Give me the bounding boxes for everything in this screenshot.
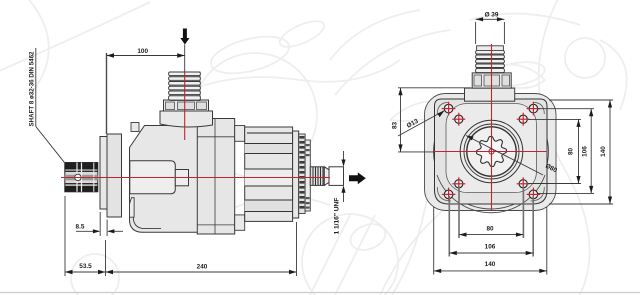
housing boss notch small xyxy=(175,170,188,186)
bolt hole O13 bottom-right xyxy=(527,188,541,202)
housing boss notch xyxy=(130,161,176,194)
top port hex xyxy=(472,73,511,88)
bolt hole O13 bottom-left xyxy=(442,188,456,202)
flange raised pad contour xyxy=(446,104,537,193)
hub circle Ø80 xyxy=(460,120,523,183)
valve block top lug xyxy=(235,126,245,142)
pump mounting flange plate xyxy=(100,137,107,210)
outlet tube xyxy=(329,167,344,186)
left view vertical red centerline xyxy=(184,72,186,140)
inlet flow arrow (down) xyxy=(180,29,189,45)
top port boss collar xyxy=(160,111,213,127)
outlet flow arrow (right) xyxy=(349,172,366,184)
svg-text:83: 83 xyxy=(392,121,399,129)
valve block xyxy=(197,119,234,235)
svg-text:53.5: 53.5 xyxy=(79,263,92,270)
svg-text:106: 106 xyxy=(582,146,589,157)
housing top-left lug xyxy=(131,123,139,132)
top port boss xyxy=(465,88,515,101)
svg-text:140: 140 xyxy=(485,261,496,268)
pump body silhouette behind flange xyxy=(425,94,557,211)
dimension 140 (vertical) xyxy=(549,100,613,204)
shaft spec label xyxy=(29,48,65,162)
outlet fitting threads xyxy=(310,167,324,186)
dimension 106 (vertical) xyxy=(538,109,594,194)
dimension 106 (horizontal) xyxy=(449,196,533,257)
bottom separator line xyxy=(0,292,640,294)
extension line below flow arrow xyxy=(184,45,186,73)
pump front housing body xyxy=(130,126,198,233)
body circle arc behind flange xyxy=(434,94,549,209)
dimension 80 (horizontal) xyxy=(459,186,523,238)
bolt hole inner bottom-right xyxy=(517,177,530,190)
svg-text:8.5: 8.5 xyxy=(76,224,85,231)
svg-text:140: 140 xyxy=(600,146,607,157)
bore center xyxy=(489,149,494,154)
dimension 140 (horizontal) xyxy=(434,207,547,275)
dimension 80 (vertical) xyxy=(528,119,581,183)
dimension 100 xyxy=(107,53,185,134)
svg-text:Ø 39: Ø 39 xyxy=(485,11,499,18)
gear housing stack xyxy=(245,127,293,221)
mounting flange xyxy=(435,99,548,204)
top port thread stem xyxy=(169,72,201,101)
splined bore xyxy=(477,137,507,167)
housing left tab xyxy=(130,198,135,218)
outlet fitting cone xyxy=(324,167,329,186)
rear end ring xyxy=(305,140,310,211)
splined drive shaft xyxy=(65,163,98,192)
label Ø13 xyxy=(398,111,445,137)
svg-text:SHAFT 8 ø32-36 DIN 5462: SHAFT 8 ø32-36 DIN 5462 xyxy=(29,51,36,127)
dimension 83 xyxy=(398,88,471,152)
bolt hole inner top-left xyxy=(452,113,465,126)
housing bottom-left inner chamfer contour xyxy=(133,201,161,229)
outlet thread size dimension xyxy=(343,151,345,202)
flange bottom arc of body circle xyxy=(437,175,545,213)
label Ø80 xyxy=(466,136,558,176)
dimension Ø39 xyxy=(476,19,505,44)
top port threaded stem xyxy=(476,46,505,73)
right view red centerlines xyxy=(434,151,547,153)
svg-text:80: 80 xyxy=(568,148,575,156)
rear cover plate xyxy=(293,131,299,218)
svg-text:240: 240 xyxy=(197,264,208,271)
svg-text:80: 80 xyxy=(486,226,494,233)
hub circle middle xyxy=(464,124,519,179)
rear ribbed ring xyxy=(299,134,305,214)
bearing carrier plate xyxy=(107,134,122,217)
bore circle xyxy=(467,127,516,176)
svg-text:106: 106 xyxy=(485,243,496,250)
bolt hole O13 top-left xyxy=(442,102,456,116)
flange chamfer corner arcs xyxy=(437,102,544,201)
dimension 8.5 xyxy=(76,212,123,236)
svg-text:100: 100 xyxy=(137,48,148,55)
svg-text:1 1/16" UNF: 1 1/16" UNF xyxy=(334,198,341,235)
dimension 53.5 and 240 xyxy=(65,196,297,276)
bolt hole O13 top-right xyxy=(527,102,541,116)
bolt hole inner top-right xyxy=(517,113,530,126)
bolt hole inner bottom-left xyxy=(452,177,465,190)
top port hex nut xyxy=(164,100,209,111)
valve block bottom lug xyxy=(235,215,245,230)
left view horizontal red centerline xyxy=(61,177,330,179)
